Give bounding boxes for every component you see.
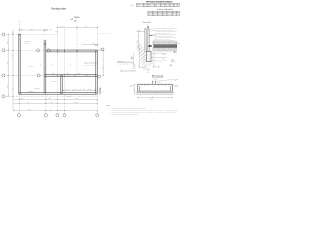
- grid bubble 5: [96, 114, 99, 117]
- wall section: outer leaf hatched: [145, 29, 147, 52]
- svg-text:4,925: 4,925: [20, 98, 23, 100]
- svg-text:5,490: 5,490: [56, 30, 59, 32]
- svg-text:6,900: 6,900: [59, 109, 62, 111]
- cavity fill below ground: [146, 45, 147, 52]
- svg-text:8,970: 8,970: [84, 26, 87, 28]
- svg-text:1,500: 1,500: [68, 89, 71, 91]
- dims under foundation block: [153, 66, 159, 69]
- svg-text:8,970: 8,970: [30, 28, 33, 30]
- footing leader notes right: [174, 78, 179, 88]
- svg-text:1,50 , 90: 1,50 , 90: [61, 26, 66, 28]
- svg-text:1:100: 1:100: [57, 10, 62, 12]
- gridline 1 (vertical): [19, 20, 21, 114]
- dpc cap mark on inner leaf: [147, 26, 149, 27]
- note block inside right wing: [85, 61, 98, 67]
- dimension line top-right y27.5: [57, 27, 98, 28]
- svg-text:blinding on 150 hardcore: blinding on 150 hardcore: [156, 40, 175, 42]
- soil hatch right of foundation block: [152, 52, 156, 66]
- svg-text:5,250: 5,250: [75, 98, 78, 100]
- grid bubble C: [2, 74, 5, 77]
- dimension line left x13: [12, 30, 13, 111]
- svg-text:NOTES:: NOTES:: [106, 105, 111, 107]
- svg-text:4,560: 4,560: [7, 41, 9, 44]
- wall: interior vertical (grid 2): [44, 40, 46, 94]
- room label left wing: [25, 40, 31, 45]
- hardcore dotted band under slab: [153, 48, 177, 52]
- wall section: inner leaf hatched: [147, 29, 149, 52]
- junction ticks on top wall of right wing: [58, 50, 78, 53]
- dark tick at wall top junction: [18, 34, 20, 36]
- wall section leader notes: [156, 27, 178, 42]
- footing leader note left: [130, 85, 135, 88]
- svg-text:10,500: 10,500: [74, 102, 78, 104]
- ground level line left with dotted hatch: [117, 59, 136, 72]
- gridline 5 (vertical): [76, 18, 78, 77]
- svg-text:scale 1:20: scale 1:20: [154, 79, 159, 81]
- gridline 3 (vertical): [57, 25, 59, 114]
- dimension line top-left y30: [19, 29, 48, 30]
- grid bubble 3: [56, 114, 59, 117]
- svg-text:1,500: 1,500: [90, 89, 93, 91]
- svg-text:3,000: 3,000: [66, 73, 69, 75]
- svg-text:600 min: 600 min: [147, 70, 151, 72]
- footing bottom dimension: [137, 97, 173, 98]
- schedule table 1: [137, 3, 181, 7]
- outer dim line wall detail: [133, 53, 150, 69]
- svg-text:8,970: 8,970: [26, 102, 29, 104]
- elevation flag lower: [172, 60, 177, 63]
- footing top distribution bar ticks: [141, 84, 169, 85]
- gridline C (horizontal): [5, 75, 98, 77]
- svg-text:ffl 100.00: ffl 100.00: [137, 30, 141, 32]
- junction ticks at interior wall: [60, 75, 62, 77]
- svg-text:3,000: 3,000: [52, 63, 54, 66]
- interior grid bubble pair on gridline B: [36, 49, 39, 52]
- floor slab dark hatch band: [154, 45, 177, 48]
- svg-text:3,600: 3,600: [50, 102, 53, 104]
- section marker label near grid 5: [71, 15, 81, 21]
- svg-text:600x250 gb1: 600x250 gb1: [34, 88, 40, 90]
- leader from stub to note: [156, 79, 174, 81]
- svg-text:300 rc slab: 300 rc slab: [28, 66, 33, 68]
- excavation line left of block: [144, 52, 146, 67]
- footing dowels: [153, 84, 156, 88]
- ffl line left of wall: [137, 30, 145, 32]
- left dim lower of wall section: [139, 48, 141, 67]
- svg-text:1,500: 1,500: [82, 89, 85, 91]
- footing column stub: [152, 81, 156, 84]
- svg-text:gb2 600x250: gb2 600x250: [51, 81, 57, 83]
- footing left dimension: [134, 84, 136, 94]
- svg-text:3,200: 3,200: [12, 54, 14, 57]
- grid bubble B: [2, 49, 5, 52]
- dimension line y44.5 right: [82, 44, 98, 46]
- elevation flag upper: [173, 51, 177, 53]
- wall: bottom exterior: [19, 93, 97, 95]
- blinding layer hatch: [137, 92, 173, 94]
- interior grid bubble right of corner on gridline B: [101, 48, 104, 51]
- dimension line bottom y99.5: [13, 99, 98, 100]
- svg-text:1,200: 1,200: [137, 40, 139, 43]
- gridline 6 (vertical): [97, 27, 99, 114]
- svg-text:2,100: 2,100: [48, 98, 51, 100]
- gridline 4 (vertical): [63, 29, 65, 114]
- svg-text:2,890: 2,890: [78, 73, 81, 75]
- svg-text:1,500: 1,500: [75, 89, 78, 91]
- footing rebar: [139, 90, 171, 92]
- gridline A (horizontal): [5, 34, 58, 36]
- section bubble left of wall detail: [131, 57, 133, 59]
- dimension line interior y90.2: [63, 90, 98, 91]
- grid bubble 2: [44, 114, 47, 117]
- interior grid bubble right on gridline C: [98, 75, 101, 78]
- wall: left exterior: [19, 34, 20, 94]
- gridline 2 (vertical): [45, 40, 47, 114]
- grid bubble 4: [63, 114, 66, 117]
- schedule table 2: [148, 11, 180, 15]
- wall: middle horizontal: [44, 75, 97, 77]
- svg-text:2,100: 2,100: [49, 110, 52, 112]
- svg-text:3,000: 3,000: [70, 63, 72, 66]
- grid bubble D: [2, 95, 5, 98]
- wall: top of right wing: [46, 50, 97, 52]
- leader notes right of foundation block: [162, 52, 167, 62]
- svg-text:450 , 450: 450 , 450: [67, 96, 72, 98]
- foundation block of wall section: [147, 51, 152, 62]
- wall: right exterior: [96, 50, 97, 94]
- svg-text:2,000: 2,000: [12, 87, 14, 90]
- soil hatch left of foundation: [136, 41, 153, 68]
- gridline D (horizontal): [5, 95, 98, 97]
- footing body: [138, 84, 172, 92]
- svg-text:Foundation plan: Foundation plan: [51, 7, 67, 10]
- svg-text:7,440: 7,440: [7, 62, 9, 65]
- wall: interior vertical (grid 4 area): [61, 76, 62, 94]
- svg-text:6,180: 6,180: [7, 85, 9, 88]
- screed stipple band above slab: [153, 41, 177, 45]
- floor line right of wall: [149, 34, 155, 36]
- svg-text:7,440: 7,440: [102, 66, 104, 69]
- grid bubble A: [2, 33, 5, 36]
- svg-text:2,400: 2,400: [52, 73, 55, 75]
- svg-text:11,070: 11,070: [28, 109, 32, 111]
- small porch element outside right wall: [99, 88, 101, 94]
- gridline B (horizontal): [5, 49, 101, 51]
- svg-text:2,700 sq: 2,700 sq: [150, 99, 154, 101]
- svg-text:600 wide: 600 wide: [162, 60, 166, 62]
- grid bubble 1: [17, 114, 20, 117]
- drawing title: Foundation plan: [51, 7, 67, 12]
- interior grid bubble on gridline C: [37, 74, 40, 77]
- slab passing through wall: [148, 45, 151, 47]
- vertical dim line right of plan: [102, 50, 104, 76]
- dimension line bottom y110.5: [13, 110, 98, 111]
- dimension line left x8.2: [8, 34, 9, 97]
- small symbol below flags: [170, 65, 171, 66]
- dimension line bottom y103.3: [13, 103, 98, 104]
- left dim of wall section: [138, 31, 140, 48]
- svg-text:2,100: 2,100: [49, 29, 52, 31]
